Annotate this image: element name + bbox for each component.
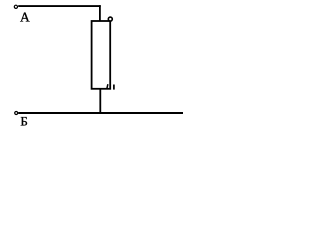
wire top horizontal [18,5,101,7]
terminal Б [15,112,18,115]
wire top vertical stub [99,5,101,21]
resistor R1 [92,21,111,89]
wire bottom vertical stub [99,89,101,113]
svg-text:Б: Б [20,113,27,127]
tick mark outside bottom-right of resistor [113,85,115,90]
junction circle top-right of resistor [108,17,112,21]
tick mark inside bottom-right of resistor [107,84,108,88]
svg-text:А: А [20,10,30,25]
terminal A [14,5,17,8]
wire bottom horizontal [18,112,183,114]
